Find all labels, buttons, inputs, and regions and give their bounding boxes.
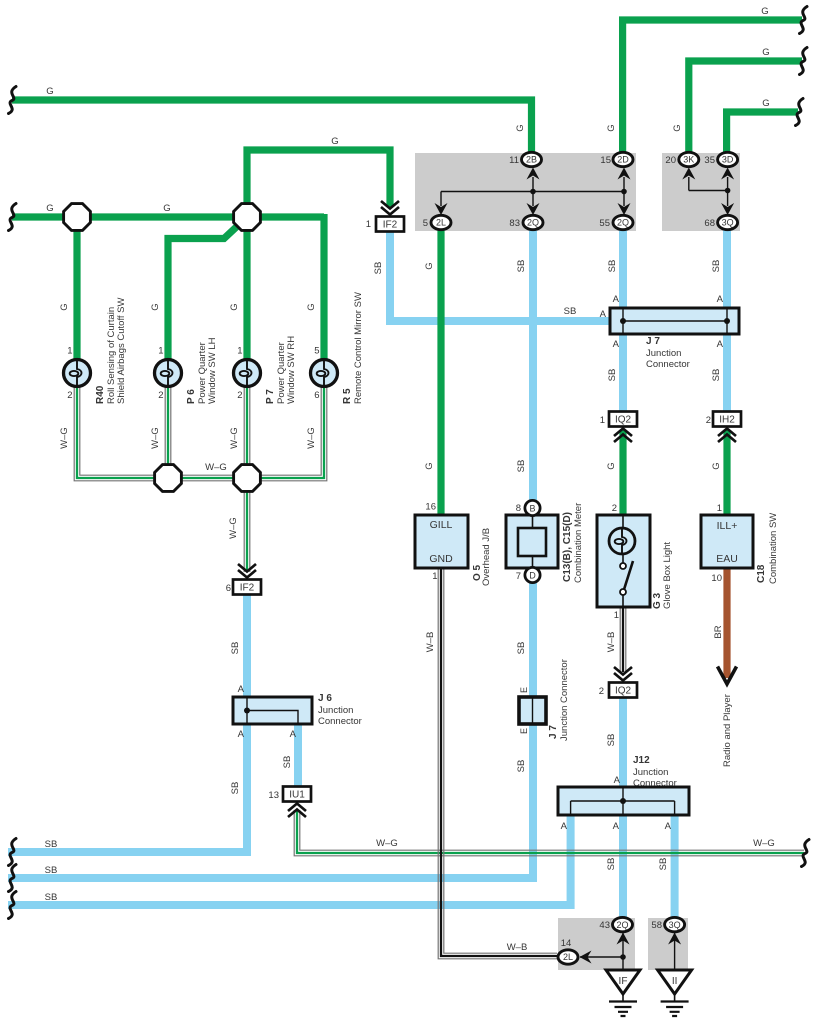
svg-text:1: 1: [158, 346, 163, 357]
svg-text:2: 2: [706, 415, 711, 426]
svg-text:SB: SB: [711, 369, 722, 382]
svg-text:43: 43: [599, 920, 610, 931]
shaded connector block (instrument panel J/B left group): [415, 153, 636, 231]
svg-text:Junction Connector: Junction Connector: [559, 659, 570, 741]
svg-text:SB: SB: [45, 865, 58, 876]
svg-text:2B: 2B: [526, 155, 537, 165]
lamp symbol of glove box light: [609, 528, 635, 554]
junction (green wire splice upper left): [64, 204, 91, 231]
connector 2Q pin 55: [613, 215, 633, 229]
svg-text:1: 1: [600, 415, 605, 426]
wire G branch up from junction to IF2 pin 1: [247, 150, 390, 217]
page break symbols: [9, 87, 17, 114]
svg-text:SB: SB: [564, 306, 577, 317]
internal link wiring of ground connector block II: [674, 933, 676, 970]
svg-text:SB: SB: [606, 858, 617, 871]
junction connector J7: [610, 308, 739, 334]
pin D of combination meter: [525, 567, 540, 582]
svg-text:A: A: [600, 309, 607, 320]
component O5 Overhead J/B: [415, 515, 468, 568]
svg-text:Connector: Connector: [318, 716, 362, 727]
svg-text:W–G: W–G: [150, 427, 161, 449]
svg-text:8: 8: [516, 503, 521, 514]
svg-text:1: 1: [237, 346, 242, 357]
svg-text:SB: SB: [282, 756, 293, 769]
svg-text:1: 1: [366, 219, 371, 230]
wire SB bus from page break right and up to J12 pin A: [8, 816, 571, 905]
junction (W–G splice right): [234, 465, 261, 492]
wire G from IH2 pin 2 down to combination SW pin 1: [723, 430, 730, 516]
wire SB from J6 pin A down to IU1 pin 13: [294, 724, 302, 788]
svg-text:20: 20: [665, 155, 676, 166]
svg-text:W–G: W–G: [753, 838, 775, 849]
svg-text:GILL: GILL: [430, 519, 453, 531]
svg-text:SB: SB: [45, 892, 58, 903]
svg-text:6: 6: [314, 390, 319, 401]
component C13(B) C15(D) Combination Meter: [506, 515, 558, 568]
svg-text:11: 11: [509, 155, 519, 166]
svg-text:G: G: [762, 98, 769, 109]
wire G from page break to connector 2B pin 11: [12, 100, 532, 154]
ground II: [658, 970, 692, 994]
svg-text:J 6: J 6: [318, 693, 332, 704]
svg-text:Shield Airbags Cutoff SW: Shield Airbags Cutoff SW: [116, 297, 127, 404]
svg-text:A: A: [717, 339, 724, 350]
svg-text:Overhead J/B: Overhead J/B: [481, 528, 492, 586]
connector 3Q pin 58: [665, 917, 685, 931]
svg-text:SB: SB: [606, 734, 617, 747]
svg-text:2: 2: [612, 503, 617, 514]
connector 3Q pin 68: [718, 215, 738, 229]
wire SB from connector 2Q pin 83 down to combination meter pin 8: [529, 228, 537, 502]
connector IF2 pin 1: [381, 201, 399, 215]
svg-text:83: 83: [509, 218, 520, 229]
svg-text:2: 2: [599, 686, 604, 697]
svg-text:2Q: 2Q: [616, 920, 628, 930]
svg-text:G: G: [306, 303, 317, 310]
svg-text:J12: J12: [633, 755, 650, 766]
svg-text:A: A: [717, 294, 724, 305]
svg-text:2L: 2L: [436, 218, 446, 228]
connector IQ2 pin 2: [614, 667, 632, 681]
svg-text:W–G: W–G: [59, 427, 70, 449]
svg-text:A: A: [561, 821, 568, 832]
connector 2D pin 15: [613, 152, 633, 166]
svg-text:G: G: [515, 124, 526, 131]
svg-text:W–G: W–G: [306, 427, 317, 449]
svg-text:B: B: [529, 503, 535, 513]
svg-text:EAU: EAU: [716, 553, 738, 565]
svg-text:SB: SB: [658, 858, 669, 871]
connector 2Q pin 43: [613, 917, 633, 931]
svg-text:G: G: [163, 203, 170, 214]
wire W–G from R40 pin 2 to junction bus: [77, 386, 168, 478]
svg-text:J 7: J 7: [646, 336, 660, 347]
svg-text:2: 2: [158, 390, 163, 401]
wire W–G from IU1 pin 13 down then right to page break: [297, 810, 804, 853]
wire W–G from P7 pin 2 to junction: [245, 386, 250, 478]
wire G from connector 3K pin 20 up and right to page break: [689, 61, 802, 154]
svg-text:P 6: P 6: [186, 389, 197, 404]
svg-text:A: A: [613, 339, 620, 350]
svg-text:35: 35: [704, 155, 715, 166]
svg-text:Junction: Junction: [318, 705, 353, 716]
svg-text:SB: SB: [607, 369, 618, 382]
wire G from connector 2D pin 15 up and right to page break: [623, 20, 802, 154]
svg-text:A: A: [614, 775, 621, 786]
switch P6 body with illumination lamp: [155, 360, 182, 387]
wire SB from connector 3Q pin 68 down through J7 to IH2 pin 2: [723, 228, 731, 412]
svg-text:G: G: [711, 462, 722, 469]
svg-text:58: 58: [651, 920, 662, 931]
svg-text:G: G: [331, 136, 338, 147]
svg-text:5: 5: [423, 218, 428, 229]
wire SB from IQ2 pin 2 down to J12 pin A: [619, 696, 627, 788]
striped wire overlays (W–G / W–B edges and stripes): [74, 386, 168, 481]
connector 3K pin 20: [679, 152, 699, 166]
svg-text:IH2: IH2: [719, 415, 735, 426]
svg-text:W–G: W–G: [376, 838, 398, 849]
wire G branch down to R5 pin 5: [320, 214, 327, 361]
svg-text:G: G: [150, 303, 161, 310]
wire W–B from overhead J/B pin 1 down to connector 2L pin 14: [441, 568, 557, 956]
svg-text:2Q: 2Q: [527, 218, 539, 228]
wire W–G bus between junctions: [168, 476, 247, 481]
svg-text:7: 7: [516, 571, 521, 582]
wire BR from combination SW pin 10 down to Radio and Player: [723, 567, 730, 678]
svg-text:G: G: [46, 203, 53, 214]
svg-text:G: G: [59, 303, 70, 310]
internal link wiring of right connector block: [689, 177, 728, 206]
svg-text:G: G: [424, 262, 435, 269]
svg-text:D: D: [529, 570, 536, 580]
svg-text:SB: SB: [45, 839, 58, 850]
svg-text:3D: 3D: [722, 155, 734, 165]
svg-text:II: II: [672, 976, 678, 987]
svg-text:14: 14: [561, 938, 572, 949]
component C18 Combination SW: [701, 515, 753, 568]
svg-text:Remote Control Mirror SW: Remote Control Mirror SW: [353, 292, 364, 404]
connector IH2 pin 2: [713, 412, 741, 427]
switch symbol of glove box light: [620, 563, 626, 569]
wire G from connector 3D pin 35 up and right to page break: [727, 112, 798, 154]
ground IF: [606, 970, 640, 994]
svg-text:15: 15: [600, 155, 611, 166]
svg-text:Junction: Junction: [633, 767, 668, 778]
svg-text:SB: SB: [230, 642, 241, 655]
svg-text:G: G: [424, 462, 435, 469]
connector IF2 pin 6: [238, 564, 256, 578]
svg-text:G: G: [672, 124, 683, 131]
svg-text:1: 1: [717, 503, 722, 514]
svg-text:A: A: [665, 821, 672, 832]
svg-text:Radio and Player: Radio and Player: [722, 694, 733, 767]
svg-text:G: G: [606, 124, 617, 131]
wire G from connector 2L pin 5 down to overhead J/B pin 16: [437, 229, 444, 516]
svg-text:3Q: 3Q: [722, 218, 734, 228]
svg-text:E: E: [519, 728, 529, 734]
svg-text:SB: SB: [516, 460, 527, 473]
svg-text:SB: SB: [516, 760, 527, 773]
switch R5 body with illumination lamp: [311, 360, 338, 387]
junction (W–G splice left): [155, 465, 182, 492]
connector 2B pin 11: [522, 152, 542, 166]
svg-text:SB: SB: [516, 260, 527, 273]
svg-text:IF2: IF2: [383, 220, 398, 231]
shaded connector block (instrument panel J/B right group): [662, 153, 740, 231]
wire G branch down to P7 pin 1: [243, 217, 250, 361]
svg-text:A: A: [290, 729, 297, 740]
connector IQ2 pin 1: [609, 412, 637, 427]
svg-text:10: 10: [711, 573, 722, 584]
svg-text:16: 16: [425, 502, 436, 513]
svg-text:W–G: W–G: [205, 462, 227, 473]
pin B of combination meter: [525, 500, 540, 515]
wire SB from connector 2Q pin 55 down through J7 to IQ2 pin 1: [619, 228, 627, 412]
svg-text:G: G: [229, 303, 240, 310]
shaded connector block (ground group II): [648, 918, 688, 970]
svg-text:6: 6: [226, 583, 231, 594]
wire SB from J12 pin A down to connector 3Q pin 58: [671, 814, 679, 919]
svg-text:G: G: [606, 462, 617, 469]
switch P7 body with illumination lamp: [234, 360, 261, 387]
connector 2L pin 5: [431, 215, 451, 229]
svg-text:Junction: Junction: [646, 348, 681, 359]
svg-text:2L: 2L: [563, 952, 573, 962]
svg-text:5: 5: [314, 346, 319, 357]
svg-text:A: A: [238, 729, 245, 740]
svg-text:A: A: [238, 684, 245, 695]
svg-text:P 7: P 7: [265, 389, 276, 404]
svg-text:W–G: W–G: [228, 517, 239, 539]
svg-text:SB: SB: [516, 642, 527, 655]
svg-text:IU1: IU1: [289, 790, 305, 801]
svg-text:R 5: R 5: [342, 388, 353, 404]
junction connector J6: [233, 697, 312, 724]
svg-text:BR: BR: [713, 625, 724, 638]
junction connector J12: [558, 787, 689, 815]
wire G branch down to R40 pin 1: [73, 217, 80, 361]
internal link wiring of left connector block: [441, 177, 624, 206]
wire G main branch from page break through junctions to switches: [12, 213, 324, 220]
svg-text:W–B: W–B: [425, 632, 436, 653]
svg-text:Combination SW: Combination SW: [768, 513, 779, 584]
switch R40 body with illumination lamp: [64, 360, 91, 387]
svg-text:13: 13: [268, 790, 279, 801]
wire W–G from P6 pin 2 to junction: [166, 386, 171, 478]
wire W–G from R5 pin 6 to junction bus: [247, 386, 324, 478]
svg-text:Window SW RH: Window SW RH: [286, 336, 297, 404]
svg-text:Glove Box Light: Glove Box Light: [662, 542, 673, 609]
svg-text:IQ2: IQ2: [615, 686, 632, 697]
wire SB from J12 pin A down to connector 2Q pin 43: [619, 814, 627, 919]
wire G from IQ2 pin 1 down to glove box light pin 2: [619, 430, 626, 516]
arrowhead to Radio and Player: [718, 667, 737, 685]
svg-text:Combination Meter: Combination Meter: [573, 503, 584, 583]
svg-text:C13(B), C15(D): C13(B), C15(D): [562, 512, 573, 582]
internal link wiring of ground connector block IF: [580, 933, 623, 970]
svg-text:2: 2: [67, 390, 72, 401]
svg-text:R40: R40: [95, 385, 106, 404]
svg-text:3K: 3K: [683, 155, 694, 165]
svg-text:3Q: 3Q: [669, 920, 681, 930]
svg-text:IQ2: IQ2: [615, 415, 632, 426]
svg-text:SB: SB: [711, 260, 722, 273]
connector 2L pin 14: [558, 950, 578, 964]
svg-text:SB: SB: [230, 782, 241, 795]
svg-text:2D: 2D: [617, 155, 629, 165]
svg-text:W–G: W–G: [229, 427, 240, 449]
svg-text:A: A: [613, 294, 620, 305]
wire W–G from junction down to IF2 pin 6: [245, 478, 250, 572]
svg-text:IF: IF: [619, 976, 628, 987]
svg-text:W–B: W–B: [606, 632, 617, 653]
svg-text:G: G: [761, 6, 768, 17]
wire SB from combination meter pin 7 down then left to page break: [8, 581, 533, 878]
svg-text:G: G: [762, 47, 769, 58]
svg-text:Connector: Connector: [633, 778, 677, 789]
svg-text:2Q: 2Q: [617, 218, 629, 228]
svg-text:SB: SB: [607, 260, 618, 273]
svg-text:A: A: [613, 821, 620, 832]
svg-text:2: 2: [237, 390, 242, 401]
svg-text:1: 1: [67, 346, 72, 357]
svg-text:E: E: [519, 687, 529, 693]
component G3 Glove Box Light: [597, 515, 650, 607]
svg-text:55: 55: [599, 218, 610, 229]
wire G branch diagonal to P6 pin 1: [168, 218, 246, 361]
svg-text:C18: C18: [756, 564, 767, 583]
svg-text:J 7: J 7: [548, 725, 559, 739]
svg-text:GND: GND: [429, 553, 453, 565]
svg-text:Connector: Connector: [646, 359, 690, 370]
wire W–B from glove box light pin 1 down to IQ2 pin 2: [621, 607, 626, 672]
svg-text:G: G: [46, 86, 53, 97]
svg-text:ILL+: ILL+: [717, 520, 738, 532]
wire SB from IF2 pin 1 down and right to J7 pin A: [390, 230, 612, 321]
svg-text:SB: SB: [373, 262, 384, 275]
svg-text:68: 68: [704, 218, 715, 229]
connector 3D pin 35: [718, 152, 738, 166]
svg-text:IF2: IF2: [240, 583, 255, 594]
connector IU1 pin 13: [283, 787, 311, 802]
svg-text:W–B: W–B: [507, 942, 528, 953]
junction (green wire splice upper centre): [234, 204, 261, 231]
svg-text:1: 1: [614, 610, 619, 621]
svg-text:Window SW LH: Window SW LH: [207, 337, 218, 404]
junction connector J7 (combination meter branch): [519, 697, 546, 724]
wire SB from IF2 pin 6 down through J6 then left to page break: [8, 593, 247, 852]
svg-text:1: 1: [432, 571, 437, 582]
connector 2Q pin 83: [523, 215, 543, 229]
shaded connector block (ground group IF): [558, 918, 635, 970]
